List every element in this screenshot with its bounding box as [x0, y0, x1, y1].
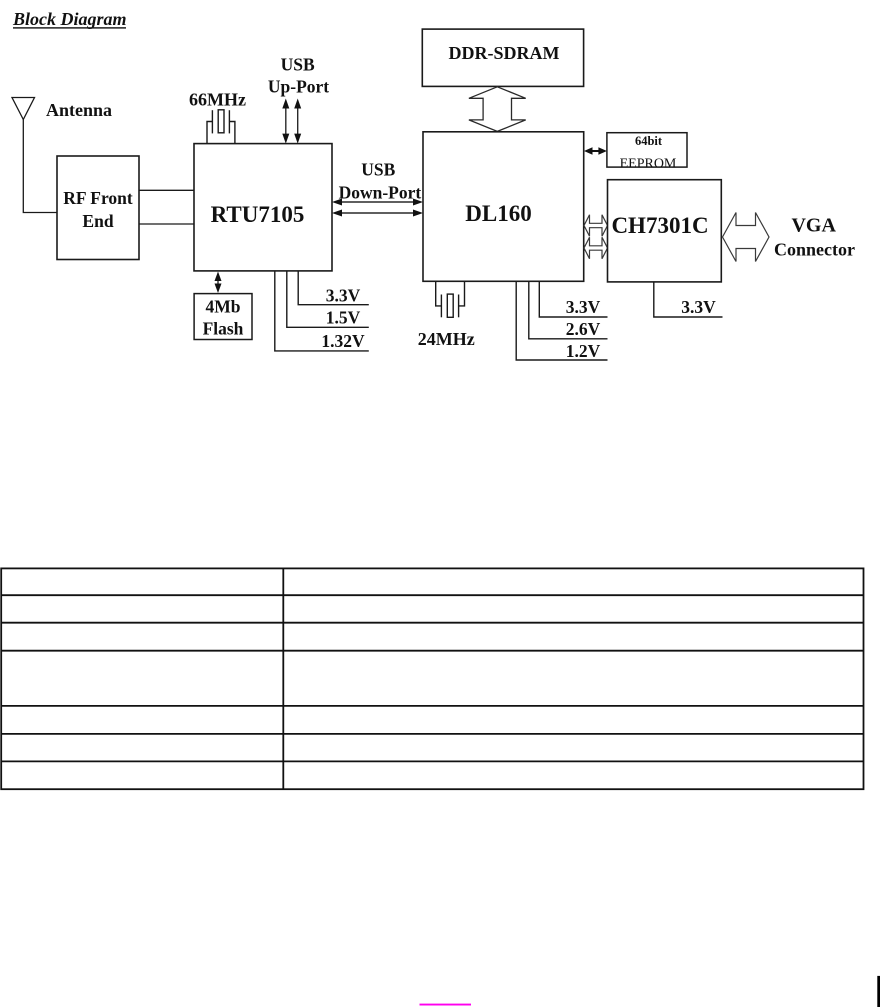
svg-text:CH7301C: CH7301C	[611, 213, 708, 238]
svg-text:USB: USB	[281, 55, 315, 75]
arrow hollow DL160 to CH7301C lower	[584, 237, 608, 258]
svg-text:RF Front: RF Front	[63, 188, 133, 208]
block 64bit EEPROM	[607, 133, 687, 172]
wire RTU pin 3.3V	[298, 271, 369, 304]
svg-text:4Mb: 4Mb	[206, 297, 241, 317]
arrow hollow DL160 to CH7301C upper	[584, 215, 608, 236]
svg-text:Block Diagram: Block Diagram	[12, 9, 127, 29]
wire CH7301C pin 3.3V	[654, 282, 723, 317]
wire DL160 pin 1.2V	[516, 282, 607, 360]
svg-text:3.3V: 3.3V	[566, 297, 601, 317]
svg-text:1.2V: 1.2V	[566, 341, 601, 361]
svg-text:Antenna: Antenna	[46, 100, 112, 120]
wire RF to RTU7105 lower	[139, 223, 194, 225]
mark magenta underline	[420, 1004, 472, 1006]
crystal Y1 66MHz	[207, 110, 235, 144]
svg-text:3.3V: 3.3V	[681, 297, 716, 317]
block RTU7105	[194, 144, 332, 271]
arrow USB down-port 1	[332, 199, 423, 206]
svg-text:3.3V: 3.3V	[326, 286, 361, 306]
svg-text:USB: USB	[361, 160, 395, 180]
svg-text:VGA: VGA	[791, 215, 836, 237]
wire antenna to RF Front End	[23, 120, 57, 213]
wire RTU pin 1.32V	[275, 271, 369, 351]
svg-text:1.5V: 1.5V	[326, 308, 361, 328]
svg-text:EEPROM: EEPROM	[620, 157, 677, 172]
block RF Front End	[57, 156, 139, 260]
crystal Y2 24MHz	[436, 282, 465, 318]
block 4Mb Flash	[194, 294, 252, 340]
svg-text:2.6V: 2.6V	[566, 319, 601, 339]
svg-text:DDR-SDRAM: DDR-SDRAM	[449, 43, 560, 63]
svg-text:End: End	[82, 211, 113, 231]
svg-text:Up-Port: Up-Port	[268, 77, 329, 97]
wire RTU pin 1.5V	[287, 271, 369, 327]
antenna ANT	[12, 98, 35, 120]
svg-text:Down-Port: Down-Port	[339, 183, 422, 203]
svg-text:Flash: Flash	[203, 319, 244, 339]
arrow hollow CH7301C to VGA	[723, 213, 770, 262]
title Block Diagram	[12, 9, 127, 29]
block DL160	[423, 132, 584, 281]
svg-text:66MHz: 66MHz	[189, 90, 246, 110]
arrow hollow DDR to DL160	[469, 87, 526, 132]
svg-text:DL160: DL160	[465, 201, 531, 226]
wire DL160 pin 3.3V	[539, 282, 607, 317]
wire DL160 pin 2.6V	[529, 282, 608, 339]
arrow DL160 to EEPROM	[584, 147, 607, 155]
arrow RTU7105 to 4Mb Flash	[215, 272, 222, 294]
arrow USB up-port line 1	[282, 99, 289, 144]
svg-text:64bit: 64bit	[635, 134, 663, 148]
table spec 7 rows	[1, 568, 863, 789]
svg-text:24MHz: 24MHz	[418, 329, 475, 349]
svg-text:1.32V: 1.32V	[321, 331, 365, 351]
block DDR-SDRAM	[422, 29, 583, 86]
mark black edge bar	[877, 976, 880, 1007]
arrow USB up-port line 2	[294, 99, 301, 144]
arrow USB down-port 2	[332, 210, 423, 217]
svg-text:Connector: Connector	[774, 240, 855, 260]
svg-text:RTU7105: RTU7105	[211, 202, 305, 227]
block CH7301C	[608, 180, 722, 282]
wire RF to RTU7105 upper	[139, 189, 194, 191]
